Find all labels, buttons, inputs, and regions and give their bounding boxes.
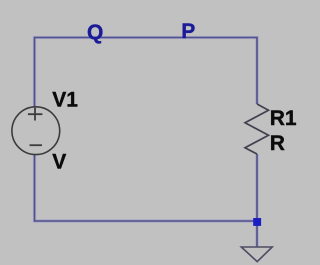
svg-text:Q: Q — [87, 21, 103, 44]
resistor R1 zigzag — [245, 104, 269, 154]
wire junction to ground core — [256, 221, 258, 247]
junction node — [253, 218, 261, 226]
svg-text:V: V — [52, 150, 66, 173]
svg-text:R1: R1 — [270, 107, 297, 130]
voltage source V1 circle — [12, 107, 60, 155]
wire junction to ground — [255, 221, 258, 247]
voltage source V1 plus sign — [28, 108, 43, 121]
wire top net (V1 plus to R1 top) — [35, 38, 258, 108]
wire bottom net (V1 minus to ground) — [35, 154, 258, 221]
voltage source V1 minus sign — [30, 144, 43, 146]
wire bottom net core — [35, 154, 258, 221]
ground symbol — [241, 247, 272, 262]
wire top net core — [35, 38, 258, 108]
svg-text:P: P — [181, 20, 195, 43]
svg-text:R: R — [270, 132, 285, 155]
svg-text:V1: V1 — [52, 89, 78, 112]
